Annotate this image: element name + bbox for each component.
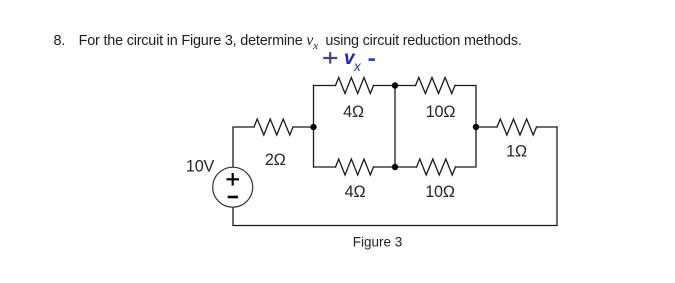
svg-text:10Ω: 10Ω bbox=[426, 103, 456, 121]
label vx plus sign (blue) bbox=[323, 52, 337, 63]
voltage source V1 plus sign bbox=[227, 173, 240, 186]
svg-text:2Ω: 2Ω bbox=[265, 151, 286, 169]
resistor R 10ohm top zigzag bbox=[416, 78, 456, 94]
svg-text:10Ω: 10Ω bbox=[425, 183, 455, 201]
resistor R 10ohm bottom zigzag bbox=[417, 159, 456, 175]
wire bottom middle lead bbox=[374, 166, 417, 168]
voltage source V1 minus sign bbox=[228, 196, 238, 199]
label vx minus sign (blue) bbox=[369, 58, 376, 61]
node A junction dot bbox=[310, 124, 316, 130]
resistor R 4ohm bottom zigzag bbox=[336, 159, 374, 175]
wire bottom branch right corner up bbox=[456, 127, 477, 167]
svg-text:4Ω: 4Ω bbox=[345, 183, 366, 201]
svg-text:1Ω: 1Ω bbox=[506, 143, 527, 161]
svg-text:x: x bbox=[353, 59, 362, 74]
svg-text:4Ω: 4Ω bbox=[343, 103, 364, 121]
wire 2ohm right lead to node A bbox=[293, 126, 314, 128]
resistor R 4ohm top zigzag bbox=[336, 78, 374, 94]
node C junction dot (bottom) bbox=[392, 164, 398, 170]
problem statement text bbox=[54, 32, 522, 52]
svg-text:Figure 3: Figure 3 bbox=[353, 234, 403, 249]
wire middle vertical between nodes bbox=[394, 86, 396, 168]
resistor R 1ohm zigzag bbox=[497, 119, 537, 135]
voltage source V1 circle bbox=[213, 167, 253, 207]
wire top branch right corner down bbox=[455, 86, 476, 128]
node B junction dot (top) bbox=[392, 82, 398, 88]
wire 1ohm left lead bbox=[476, 126, 497, 128]
wire left branch vertical bbox=[313, 86, 315, 168]
node D junction dot (right) bbox=[473, 124, 479, 130]
wire source top lead bbox=[233, 127, 254, 167]
wire top middle lead bbox=[374, 85, 416, 87]
wire bottom rail bbox=[233, 127, 557, 226]
svg-text:10V: 10V bbox=[186, 158, 215, 176]
wire top branch left lead bbox=[314, 85, 336, 87]
wire bottom branch left lead bbox=[314, 166, 336, 168]
wire 1ohm right lead bbox=[537, 126, 558, 128]
resistor R 2ohm zigzag bbox=[254, 119, 293, 135]
